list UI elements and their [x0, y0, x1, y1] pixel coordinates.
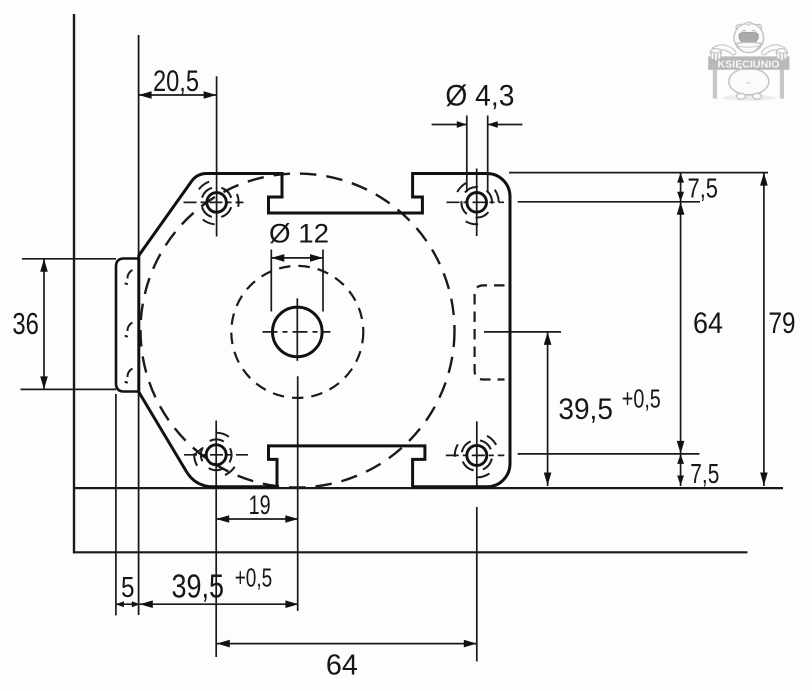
dim 7,5 top line — [680, 173, 682, 202]
svg-text:20,5: 20,5 — [153, 65, 199, 98]
dim 7,5 bottom line — [680, 454, 682, 486]
dim dia 12 line — [271, 257, 323, 259]
arm right outline — [764, 47, 783, 52]
svg-text:Ø 4,3: Ø 4,3 — [445, 79, 514, 112]
ear left — [736, 24, 742, 30]
smile — [736, 42, 761, 52]
svg-text:39,5: 39,5 — [558, 393, 613, 426]
dashed circle hole BR outer — [446, 425, 507, 486]
muzzle — [739, 33, 758, 44]
extension line tab left down — [115, 394, 117, 615]
navel — [747, 83, 750, 84]
dim 64 right line — [680, 202, 682, 454]
svg-text:36: 36 — [12, 306, 39, 341]
extension line 36 top — [22, 258, 116, 260]
eye left — [742, 30, 746, 31]
svg-text:5: 5 — [121, 572, 135, 604]
floor line bottom — [74, 551, 748, 553]
arm left fill — [715, 47, 734, 52]
extension line 36 bottom — [21, 388, 117, 390]
left edge extension line — [138, 35, 140, 615]
dim 39,5 bottom line — [140, 603, 299, 605]
centerline hole TL — [184, 201, 244, 203]
sign board — [708, 56, 789, 69]
svg-text:+0,5: +0,5 — [622, 383, 661, 413]
tab hook marks — [127, 270, 132, 377]
centerline hole TR horizontal — [447, 201, 505, 203]
svg-text:64: 64 — [693, 307, 723, 340]
extension line hole BR right — [518, 453, 700, 455]
paw right — [776, 49, 787, 61]
paw left — [710, 49, 721, 61]
dim 20,5 line — [139, 94, 217, 96]
centerline hole TR vertical — [476, 169, 478, 237]
dashed circle hole BL inner — [196, 434, 237, 475]
arm right fill — [764, 47, 783, 52]
part outline — [139, 174, 510, 487]
teeth line — [739, 46, 759, 47]
svg-text:7,5: 7,5 — [690, 458, 719, 489]
dashed circle hole BR inner — [459, 437, 495, 473]
extension line 39,5 right — [484, 331, 561, 333]
ear right — [755, 24, 761, 30]
hair tuft — [746, 22, 752, 26]
centerline hole BR vertical — [476, 421, 478, 488]
wall vertical line — [73, 14, 75, 554]
svg-text:19: 19 — [249, 490, 271, 520]
x mark near hole BL — [194, 449, 202, 456]
hole TL — [207, 193, 227, 213]
mascot logo Ksieciunio — [708, 22, 789, 101]
hole BL — [206, 445, 226, 465]
dim 79 line — [763, 173, 765, 486]
dashed circle hole BL outer — [186, 425, 246, 485]
foot right — [752, 93, 761, 99]
dim 5 line — [116, 603, 140, 605]
body — [729, 68, 769, 95]
sign leg left — [713, 69, 717, 99]
centerline center hole horizontal — [263, 331, 331, 333]
dashed circle hole TR outer — [446, 172, 507, 233]
extension line hole TL vertical — [216, 76, 218, 236]
extension line part top right — [509, 172, 768, 174]
svg-text:+0,5: +0,5 — [235, 563, 273, 593]
center hole dia 12 — [273, 307, 323, 357]
extension line hole BR down — [476, 507, 478, 662]
dim dia 4,3 lines — [432, 124, 523, 126]
extension line hole TR right — [518, 201, 700, 203]
big dashed pitch circle — [141, 174, 455, 488]
svg-text:KSIĘCIUNIO: KSIĘCIUNIO — [718, 58, 780, 70]
small dashed circle around center hole — [231, 266, 363, 398]
hole BR — [467, 445, 487, 465]
svg-text:79: 79 — [769, 307, 796, 340]
svg-text:64: 64 — [326, 650, 358, 682]
sign leg right — [780, 69, 784, 99]
dim 19 line — [216, 518, 298, 520]
dashed slot right side — [475, 285, 505, 379]
extension line hole BL vertical — [215, 421, 217, 658]
centerline hole BL horizontal — [184, 454, 248, 456]
foot left — [736, 93, 745, 99]
svg-text:39,5: 39,5 — [172, 567, 225, 604]
extension lines dia 12 — [271, 250, 323, 312]
centerline center hole vertical — [296, 298, 298, 361]
svg-text:7,5: 7,5 — [688, 172, 719, 203]
floor line top — [74, 487, 783, 489]
dashed circle hole TL outer — [193, 179, 241, 227]
eye right — [752, 30, 756, 31]
hole TR — [467, 193, 487, 213]
arm left outline — [715, 47, 734, 52]
centerline hole BR horizontal — [446, 454, 505, 456]
dim 39,5 right line — [547, 332, 549, 486]
dim 64 bottom line — [217, 643, 477, 645]
extension line center hole down — [297, 376, 299, 611]
dashed circle hole TR inner — [455, 181, 498, 224]
svg-text:Ø 12: Ø 12 — [269, 219, 329, 249]
head — [734, 23, 764, 52]
shadow — [723, 95, 777, 101]
extension lines dia 4,3 — [467, 116, 488, 193]
dim 36 line — [43, 259, 45, 390]
tab on left edge — [116, 259, 139, 392]
dashed circle hole TL inner — [197, 183, 236, 222]
